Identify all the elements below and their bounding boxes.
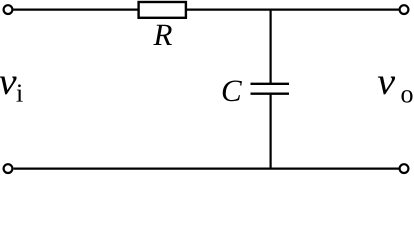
wire top-left to resistor	[13, 9, 138, 11]
label v_o output voltage	[378, 77, 395, 95]
output terminal top-right	[400, 5, 409, 14]
wire capacitor bottom plate to bottom rail	[270, 94, 272, 169]
label C	[223, 80, 242, 101]
input terminal top-left	[4, 5, 13, 14]
label v_i input voltage	[0, 77, 17, 95]
capacitor C bottom plate	[251, 93, 290, 95]
resistor R	[139, 2, 186, 18]
capacitor C top plate	[251, 83, 290, 85]
output terminal bottom-right	[400, 164, 409, 173]
input terminal bottom-left	[4, 164, 13, 173]
wire resistor to output terminal	[187, 9, 399, 11]
bottom rail wire	[14, 168, 399, 170]
label R	[153, 25, 172, 45]
wire node to capacitor top plate	[270, 10, 272, 84]
